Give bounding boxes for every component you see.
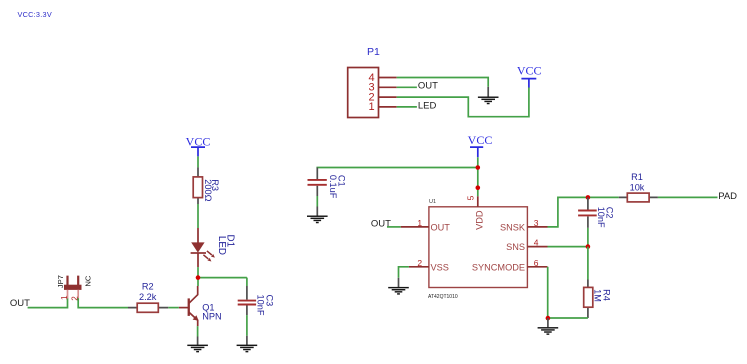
wire R4 to ground node bbox=[548, 317, 588, 319]
svg-text:AT42QT1010: AT42QT1010 bbox=[428, 294, 458, 300]
ground (C1) bbox=[307, 207, 328, 224]
wire SYNCMODE down bbox=[547, 267, 549, 318]
svg-text:OUT: OUT bbox=[431, 223, 451, 233]
svg-text:R1: R1 bbox=[631, 172, 643, 182]
svg-text:VCC: VCC bbox=[468, 133, 493, 147]
svg-text:4: 4 bbox=[534, 238, 539, 248]
wire JP7 to R2 bbox=[78, 298, 128, 307]
svg-text:PAD: PAD bbox=[718, 191, 737, 202]
svg-text:2.2k: 2.2k bbox=[139, 292, 157, 302]
wire OUT to JP7 bbox=[28, 298, 68, 307]
junction (SYNCMODE/R4/gnd) bbox=[546, 316, 551, 321]
svg-text:P1: P1 bbox=[367, 46, 380, 58]
svg-text:R2: R2 bbox=[142, 282, 154, 292]
svg-text:SNSK: SNSK bbox=[500, 222, 526, 232]
wire R2 to Q1 base bbox=[168, 307, 179, 309]
wire C3 to ground bbox=[246, 315, 248, 336]
svg-text:LED: LED bbox=[418, 101, 437, 112]
svg-text:1: 1 bbox=[368, 101, 374, 113]
junction (VDD) bbox=[476, 185, 481, 190]
wire P1 pin1 bbox=[397, 106, 417, 108]
wire P1 pin4 to ground bbox=[397, 78, 489, 87]
resistor R4 bbox=[584, 280, 612, 319]
supply VCC (above U1) bbox=[468, 133, 493, 157]
svg-text:NC: NC bbox=[84, 275, 93, 286]
pin 2 VSS bbox=[409, 266, 429, 268]
wire VCC to VDD pin bbox=[477, 157, 479, 196]
wire VCC branch to C1 bbox=[317, 167, 478, 170]
diode D1 LED bbox=[191, 228, 236, 267]
svg-text:1M: 1M bbox=[593, 289, 603, 302]
svg-text:1: 1 bbox=[417, 218, 422, 228]
wire node to C3 bbox=[198, 277, 247, 279]
svg-text:3: 3 bbox=[534, 218, 539, 228]
IC U1 AT42QT1010 bbox=[401, 195, 548, 300]
svg-text:0.1uF: 0.1uF bbox=[328, 175, 338, 199]
wire R1 to PAD bbox=[658, 196, 718, 198]
svg-text:2: 2 bbox=[417, 258, 422, 268]
wire SNS to node bbox=[548, 246, 588, 248]
supply VCC (left, above R3) bbox=[186, 134, 211, 156]
svg-text:5: 5 bbox=[465, 195, 475, 200]
wire C2 to SNS node bbox=[587, 228, 589, 247]
ground (P1 pin4) bbox=[478, 87, 499, 104]
svg-text:200Ω: 200Ω bbox=[203, 179, 213, 201]
svg-text:10nF: 10nF bbox=[255, 295, 265, 316]
wire C1 to ground bbox=[316, 196, 318, 207]
ground (C3) bbox=[237, 336, 258, 353]
wire node to R4 bbox=[587, 247, 589, 280]
svg-text:SYNCMODE: SYNCMODE bbox=[472, 262, 525, 272]
junction (SNSK/C2/R1) bbox=[586, 195, 591, 200]
svg-text:U1: U1 bbox=[429, 199, 436, 205]
svg-text:NPN: NPN bbox=[202, 311, 221, 321]
svg-text:VSS: VSS bbox=[431, 263, 449, 273]
svg-text:JP7: JP7 bbox=[56, 275, 65, 288]
wire D1 to node bbox=[197, 267, 199, 286]
wire P1 pin2 to VCC bbox=[397, 87, 529, 117]
pin 3 SNSK bbox=[527, 226, 547, 228]
wire SNSK to R1 node bbox=[548, 197, 619, 227]
pin 1 OUT bbox=[401, 226, 429, 228]
svg-text:10nF: 10nF bbox=[596, 207, 606, 228]
svg-text:1: 1 bbox=[60, 295, 69, 300]
junction node (LED/Q1/C3) bbox=[196, 275, 201, 280]
wire P1 pin3 bbox=[397, 86, 417, 88]
wire VCC to R3 bbox=[197, 156, 199, 167]
ground (Q1 emitter) bbox=[187, 337, 208, 353]
svg-text:LED: LED bbox=[216, 236, 227, 255]
pin 6 SYNCMODE bbox=[527, 266, 547, 268]
svg-text:OUT: OUT bbox=[418, 81, 438, 92]
junction (VCC/C1) bbox=[476, 165, 481, 170]
ground (VSS) bbox=[388, 278, 409, 295]
svg-text:VDD: VDD bbox=[474, 210, 484, 230]
pin 4 SNS bbox=[527, 246, 547, 248]
resistor R1 bbox=[619, 172, 658, 202]
capacitor C3 bbox=[238, 286, 275, 316]
capacitor C2 bbox=[578, 197, 615, 228]
ground (right) bbox=[538, 318, 559, 335]
svg-text:6: 6 bbox=[534, 258, 539, 268]
junction (SNS/C2/R4) bbox=[586, 244, 591, 249]
transistor Q1 bbox=[179, 286, 222, 326]
resistor R3 bbox=[193, 167, 220, 204]
svg-text:SNS: SNS bbox=[506, 242, 525, 252]
wire C3 top bbox=[246, 278, 248, 286]
svg-text:10k: 10k bbox=[630, 183, 645, 193]
pin 5 VDD bbox=[477, 196, 479, 207]
svg-text:VCC:3.3V: VCC:3.3V bbox=[18, 10, 52, 19]
wire OUT to U1 pin1 bbox=[387, 226, 401, 228]
svg-text:OUT: OUT bbox=[371, 218, 391, 229]
svg-text:VCC: VCC bbox=[517, 64, 542, 78]
wire R3 to D1 bbox=[197, 204, 199, 228]
wire U1 pin2 to ground bbox=[399, 267, 409, 278]
capacitor C1 bbox=[308, 168, 347, 199]
jumper JP7 bbox=[56, 275, 93, 301]
resistor R2 bbox=[128, 282, 168, 313]
svg-text:OUT: OUT bbox=[10, 298, 30, 309]
wire Q1 emitter to ground bbox=[197, 326, 199, 336]
supply VCC (top right) bbox=[517, 64, 542, 88]
connector P1 bbox=[348, 46, 397, 118]
